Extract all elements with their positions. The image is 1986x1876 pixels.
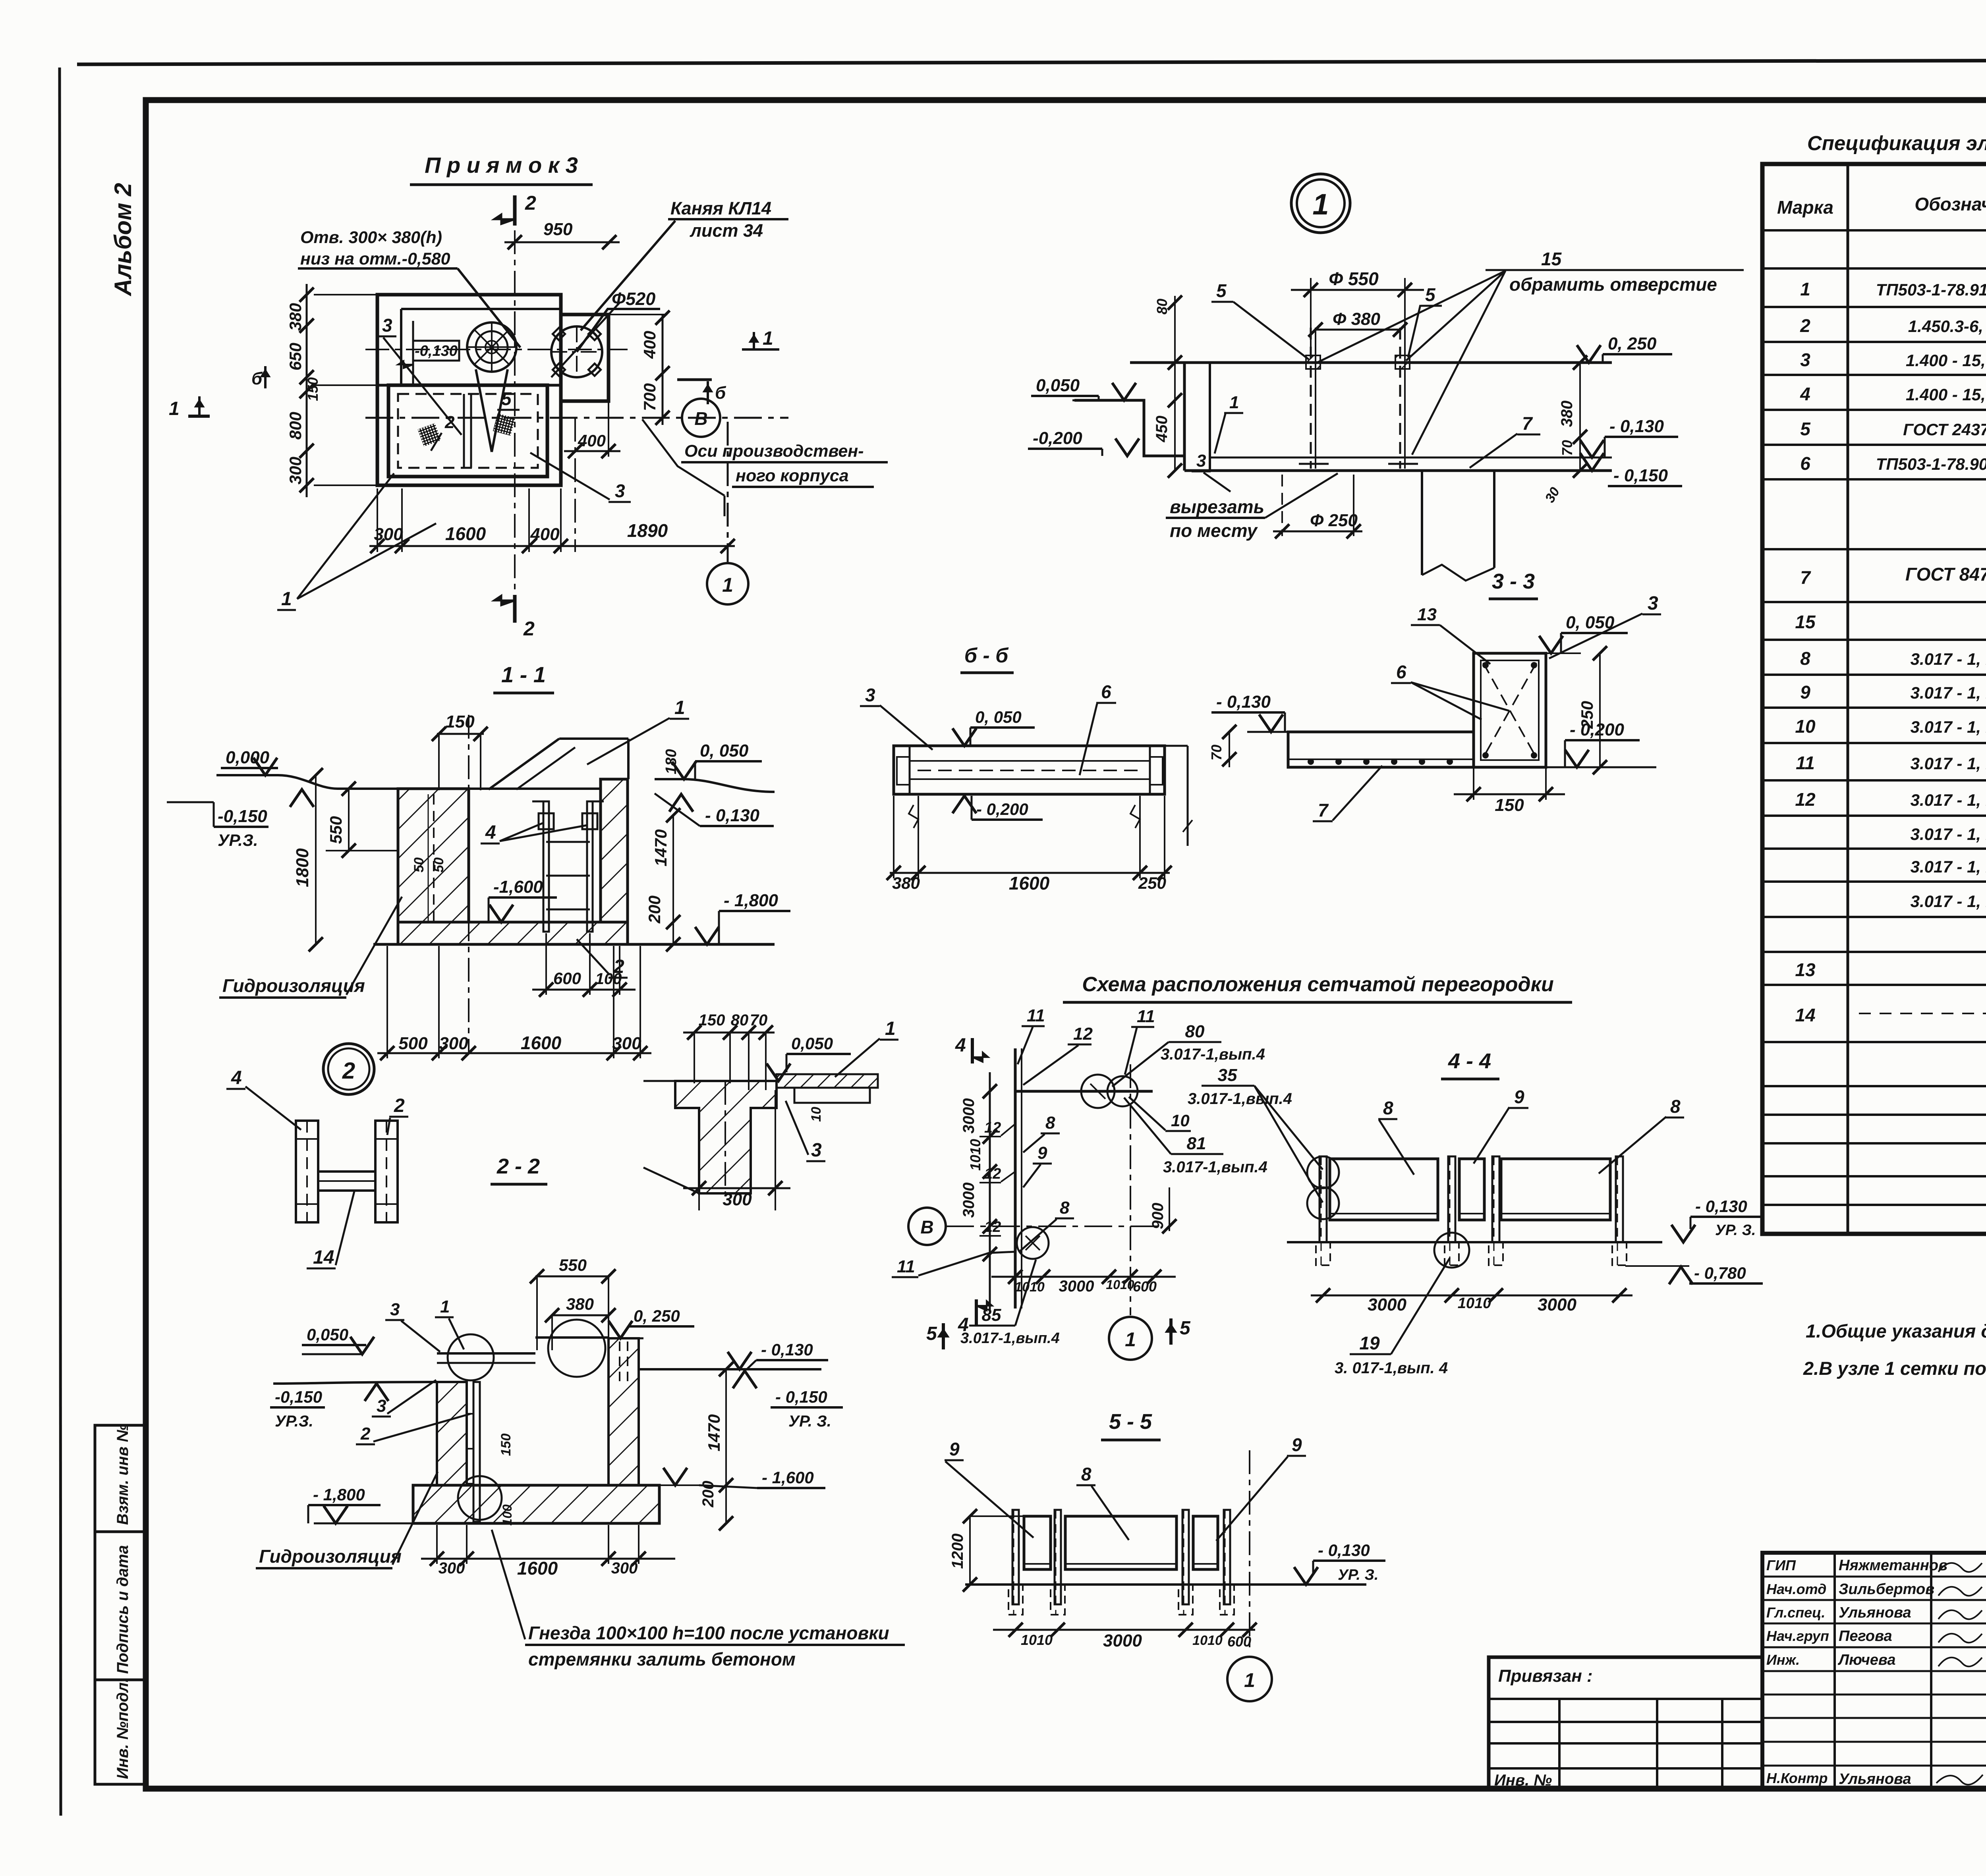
svg-text:Ульянова: Ульянова [1839,1604,1911,1621]
6-6 bottom dims [890,872,1170,874]
svg-text:3: 3 [377,1396,386,1416]
svg-text:6: 6 [1800,453,1810,474]
svg-text:0, 050: 0, 050 [1566,613,1615,632]
svg-text:50: 50 [411,857,427,872]
svg-text:85: 85 [982,1305,1001,1325]
svg-text:380: 380 [286,303,305,331]
plan right extension [561,315,609,401]
plan centerline horizontal [365,349,628,350]
bl ladder bottom circle [458,1476,502,1520]
svg-text:1.450.3-6, вып. 1: 1.450.3-6, вып. 1 [1908,317,1986,336]
svg-text:5: 5 [1800,419,1811,439]
left wall hatched [398,789,469,922]
svg-text:11: 11 [1796,753,1815,773]
svg-text:3.017-1,вып.4: 3.017-1,вып.4 [1188,1090,1292,1108]
svg-text:Нач.отд: Нач.отд [1766,1581,1826,1597]
svg-text:600: 600 [1227,1633,1251,1650]
svg-text:обрамить отверстие: обрамить отверстие [1509,274,1717,295]
svg-text:9: 9 [1514,1087,1524,1107]
bl ground line left [273,1382,437,1384]
svg-text:7: 7 [1522,413,1533,434]
svg-text:1600: 1600 [517,1558,558,1579]
svg-text:3000: 3000 [1368,1295,1406,1314]
svg-text:650: 650 [286,343,305,371]
svg-text:1200: 1200 [949,1534,966,1569]
svg-text:-1,600: -1,600 [493,877,543,897]
svg-text:8: 8 [1670,1096,1681,1117]
svg-text:0, 050: 0, 050 [975,708,1022,726]
svg-text:300: 300 [286,457,305,484]
svg-text:1.400 - 15, вып. 1: 1.400 - 15, вып. 1 [1906,351,1986,370]
bl left wall hatched [437,1382,467,1485]
svg-text:3.017 - 1, вып. 5: 3.017 - 1, вып. 5 [1911,683,1986,702]
bl joint circle right [548,1320,605,1377]
svg-text:3.017 - 1, вып. 2: 3.017 - 1, вып. 2 [1911,892,1986,911]
svg-text:150: 150 [305,377,321,401]
svg-text:0,000: 0,000 [226,748,270,767]
svg-text:Взям. инв №: Взям. инв № [114,1424,131,1525]
svg-text:600: 600 [1133,1278,1157,1295]
svg-text:УР.З.: УР.З. [218,831,258,849]
svg-text:Гнезда 100×100 h=100 после: Гнезда 100×100 h=100 после установки [528,1623,889,1643]
bl bolt in right wall [619,1341,620,1386]
схема wall vertical [1014,1048,1017,1309]
plan top inner lines [401,308,561,310]
svg-text:1: 1 [1229,393,1239,412]
axis circle 1 bottom [727,422,729,562]
svg-text:1: 1 [722,574,733,596]
svg-text:3.017-1,вып.4: 3.017-1,вып.4 [1161,1046,1265,1063]
схема left dim chain [989,1072,991,1310]
svg-text:150: 150 [699,1011,725,1029]
привязан box [1489,1657,1762,1789]
svg-text:19: 19 [1359,1333,1380,1353]
svg-text:3: 3 [865,685,875,705]
svg-text:80: 80 [731,1011,749,1029]
svg-text:950: 950 [543,220,573,239]
svg-text:1: 1 [440,1297,450,1316]
svg-text:250: 250 [1578,701,1596,729]
схема bottom dim chain [991,1276,1176,1278]
svg-text:3: 3 [811,1140,822,1161]
svg-text:-0,150: -0,150 [275,1388,322,1406]
svg-text:3.017 - 1, вып. 2: 3.017 - 1, вып. 2 [1911,857,1986,876]
svg-text:400: 400 [578,431,606,450]
svg-text:1010: 1010 [1192,1633,1223,1648]
svg-text:УР. З.: УР. З. [1715,1222,1756,1239]
right extension line [1165,745,1188,747]
svg-text:100: 100 [500,1504,514,1526]
svg-text:Альбом 2: Альбом 2 [110,183,136,297]
svg-text:13: 13 [1417,605,1437,624]
svg-text:стремянки залить бетоном: стремянки залить бетоном [528,1649,796,1669]
svg-text:вырезать: вырезать [1170,496,1264,517]
svg-text:1010: 1010 [967,1139,983,1171]
svg-text:В: В [694,408,707,429]
4-4 posts [1319,1156,1327,1242]
bottom dim chain [369,545,735,547]
svg-text:3.017-1,вып.4: 3.017-1,вып.4 [1163,1158,1267,1176]
svg-text:3.017 - 1, вып. 5: 3.017 - 1, вып. 5 [1911,718,1986,736]
svg-text:Марка: Марка [1777,197,1833,218]
svg-text:13: 13 [1795,959,1816,980]
svg-text:2: 2 [1800,315,1810,336]
svg-text:- 1,800: - 1,800 [724,891,779,910]
svg-text:5: 5 [1216,280,1227,301]
svg-text:550: 550 [326,816,345,844]
svg-text:1: 1 [763,328,773,349]
svg-text:9: 9 [1800,682,1810,703]
svg-text:2: 2 [523,618,535,640]
connector plate [318,1172,375,1191]
svg-text:4: 4 [955,1035,966,1056]
leader line to opening [458,268,520,347]
left stamp strip [95,1425,145,1784]
svg-text:3.017 - 1, вып. 2: 3.017 - 1, вып. 2 [1911,650,1986,668]
svg-text:380: 380 [1558,401,1576,427]
схема axis В horizontal [946,1226,1160,1227]
svg-text:1600: 1600 [1009,873,1050,894]
outer border left line [60,68,61,1816]
svg-text:300: 300 [374,525,403,544]
plan outer wall [377,295,561,485]
svg-text:7: 7 [1800,567,1811,588]
svg-text:- 0,130: - 0,130 [1609,417,1664,436]
svg-text:8: 8 [1045,1113,1055,1133]
left dim chain [306,284,308,497]
svg-text:15: 15 [1541,249,1562,269]
svg-text:ного корпуса: ного корпуса [736,466,849,485]
svg-text:5: 5 [1180,1318,1191,1339]
svg-text:1470: 1470 [705,1414,723,1451]
bl joint circle top [448,1334,494,1380]
svg-text:8: 8 [1383,1098,1393,1118]
svg-text:ГОСТ 8478 - 81*: ГОСТ 8478 - 81* [1905,564,1986,585]
svg-text:15: 15 [1795,612,1816,632]
svg-text:3: 3 [1196,451,1206,471]
svg-text:Подпись и дата: Подпись и дата [114,1545,131,1674]
svg-text:1: 1 [1244,1669,1255,1691]
rebar dashed in left wall [433,794,435,921]
svg-text:12: 12 [1073,1024,1093,1044]
pit inner rect [388,385,547,477]
svg-text:1: 1 [1312,188,1329,221]
svg-text:0, 050: 0, 050 [700,741,749,760]
узел 1 pit wall verticals [1183,363,1186,471]
level box -0.130 [413,341,459,361]
svg-text:2: 2 [394,1095,405,1116]
svg-text:7: 7 [1318,800,1329,820]
svg-text:Н.Контр: Н.Контр [1766,1770,1828,1786]
svg-text:Ф 250: Ф 250 [1310,511,1358,530]
svg-text:8: 8 [1060,1198,1070,1218]
svg-text:1890: 1890 [627,520,668,541]
bottom dim chain [377,1052,651,1054]
svg-text:5: 5 [1425,284,1436,305]
svg-text:1800: 1800 [293,848,312,887]
svg-text:400: 400 [530,525,560,544]
svg-text:1010: 1010 [1106,1278,1134,1292]
4-4 ground line [1287,1241,1662,1243]
svg-text:П р и я м о к 3: П р и я м о к 3 [425,152,578,178]
svg-text:- 0,150: - 0,150 [1613,466,1668,485]
pipe below [1421,471,1423,575]
svg-text:ТП503-1-78.91- КЖ. И. 35: ТП503-1-78.91- КЖ. И. 35 [1876,280,1986,299]
svg-text:- 1,600: - 1,600 [762,1468,814,1487]
ladder rails [543,801,549,932]
svg-text:Привязан :: Привязан : [1498,1666,1593,1686]
bolts feet [1299,463,1329,465]
svg-text:3. 017-1,вып. 4: 3. 017-1,вып. 4 [1335,1359,1448,1377]
svg-text:4: 4 [485,822,496,843]
svg-text:1470: 1470 [651,829,670,866]
svg-text:11: 11 [1027,1006,1045,1025]
svg-text:200: 200 [645,896,664,924]
svg-text:12: 12 [984,1166,1001,1182]
corner wall lower left break [643,1168,699,1193]
svg-text:Гл.спец.: Гл.спец. [1766,1604,1825,1621]
svg-text:300: 300 [439,1559,465,1577]
svg-text:3.017-1,вып.4: 3.017-1,вып.4 [960,1330,1060,1347]
svg-text:1600: 1600 [445,523,486,544]
svg-text:Отв. 300× 380(h): Отв. 300× 380(h) [300,228,442,247]
svg-text:0, 250: 0, 250 [1608,334,1657,353]
схема В circle [908,1208,946,1245]
svg-text:-0,200: -0,200 [1033,428,1082,448]
svg-text:Инв. №подл.: Инв. №подл. [114,1678,131,1779]
spec table grid [1762,164,1986,1234]
svg-text:4: 4 [231,1067,242,1089]
svg-text:1.Общие указания даны на лис: 1.Общие указания даны на листе 17. [1806,1320,1986,1341]
floor slab [398,922,628,944]
svg-text:3: 3 [1648,593,1658,614]
svg-text:2.В узле 1 сетки поз. 6 услов: 2.В узле 1 сетки поз. 6 условна не показ… [1803,1358,1986,1379]
corner detail dims 150 80 70 [683,1032,775,1034]
manhole КЛ14 circle [551,326,602,377]
svg-text:400: 400 [640,331,659,359]
svg-text:550: 550 [559,1256,587,1274]
corner wall hatched [675,1081,777,1193]
svg-text:1: 1 [674,697,685,718]
svg-text:300: 300 [612,1034,641,1053]
svg-text:4 - 4: 4 - 4 [1448,1049,1491,1073]
svg-text:12: 12 [984,1219,1001,1235]
svg-text:- 0,780: - 0,780 [1694,1264,1746,1282]
svg-text:380: 380 [892,874,920,892]
4-4 panels [1330,1159,1438,1220]
svg-text:Гидроизоляция: Гидроизоляция [259,1546,402,1567]
svg-text:11: 11 [1137,1007,1155,1026]
svg-text:- 0,200: - 0,200 [976,800,1028,818]
узел 1 top slab line [1130,361,1612,364]
centerline vertical section 2 [514,230,516,592]
svg-text:Ф520: Ф520 [612,289,655,309]
svg-text:150: 150 [498,1434,514,1456]
svg-text:- 0,150: - 0,150 [775,1388,827,1406]
узел 1 marker double circle [1291,174,1350,233]
svg-text:- 0,130: - 0,130 [761,1340,813,1359]
svg-text:0,050: 0,050 [1036,376,1080,395]
svg-text:3: 3 [1800,349,1810,370]
5-5 panels [1024,1516,1051,1569]
mesh symbol right [493,413,515,436]
bolt right [1399,328,1401,469]
ladder hooks top [539,813,554,829]
svg-text:ГОСТ 24379.1 - 80: ГОСТ 24379.1 - 80 [1903,420,1986,439]
svg-text:150: 150 [445,712,475,731]
svg-text:Ф 380: Ф 380 [1333,309,1381,329]
svg-text:2: 2 [613,956,624,977]
svg-text:12: 12 [984,1119,1001,1136]
svg-text:- 0,130: - 0,130 [1216,692,1271,712]
svg-text:3: 3 [382,315,392,336]
узел 1 left step profile [1074,400,1184,456]
svg-text:УР. З.: УР. З. [788,1413,831,1430]
title block signature table [1762,1553,1986,1789]
bl right wall hatched [609,1338,639,1485]
bl ladder rail [473,1382,480,1522]
bl top plate [437,1352,535,1355]
svg-text:Инж.: Инж. [1766,1652,1800,1668]
floor bottom line extended [373,943,775,946]
svg-text:2: 2 [360,1424,371,1444]
svg-text:ТП503-1-78.90 - КЖ. И.48: ТП503-1-78.90 - КЖ. И.48 [1876,455,1986,473]
diagonal leader through manhole [551,303,620,377]
svg-text:70: 70 [1208,745,1225,760]
svg-text:9: 9 [1292,1434,1302,1455]
svg-text:3.017 - 1, вып. 1: 3.017 - 1, вып. 1 [1911,791,1986,809]
svg-text:3.017 - 1, вып. 1: 3.017 - 1, вып. 1 [1911,754,1986,773]
svg-text:б - б: б - б [964,644,1009,667]
svg-text:200: 200 [699,1481,717,1508]
схема joint circle bottom [1017,1227,1049,1259]
svg-text:0,050: 0,050 [791,1034,833,1053]
right dim chain 400 700 [662,314,664,425]
svg-text:10: 10 [1795,716,1816,737]
svg-text:3000: 3000 [1103,1631,1142,1650]
svg-text:380: 380 [566,1295,594,1313]
svg-text:0, 250: 0, 250 [634,1307,680,1325]
svg-text:80: 80 [1154,299,1170,315]
svg-text:500: 500 [398,1034,428,1053]
svg-text:Няжметаннов: Няжметаннов [1839,1557,1947,1574]
svg-text:10: 10 [1171,1111,1190,1130]
svg-text:В: В [920,1217,933,1237]
bolt left [1310,328,1312,469]
bar left [296,1121,318,1222]
5-5 dim chain [993,1629,1255,1631]
svg-text:250: 250 [1138,874,1166,892]
svg-text:300: 300 [723,1190,752,1209]
3-3 floor strip [1288,732,1474,767]
svg-text:0,050: 0,050 [307,1325,348,1344]
right wall hatched [601,779,628,922]
svg-text:9: 9 [949,1439,960,1459]
svg-text:5: 5 [501,388,512,409]
svg-text:б: б [251,369,263,388]
ground line left [216,774,278,776]
svg-text:9: 9 [1037,1143,1047,1163]
svg-text:Обозначение: Обозначение [1915,194,1986,214]
bl upper wall lines [535,1336,609,1339]
svg-text:1: 1 [1125,1328,1136,1351]
svg-text:Гидроизоляция: Гидроизоляция [222,975,365,996]
corner plate hatched [777,1074,878,1088]
svg-text:низ на отм.-0,580: низ на отм.-0,580 [300,249,450,268]
svg-text:300: 300 [611,1559,638,1577]
svg-text:2: 2 [342,1058,355,1084]
svg-text:12: 12 [1795,789,1816,810]
svg-text:450: 450 [1153,416,1171,443]
svg-text:3000: 3000 [1538,1295,1576,1314]
axis circle В [682,399,720,437]
svg-text:8: 8 [1800,648,1810,669]
svg-text:Зильбертов: Зильбертов [1839,1581,1934,1598]
svg-text:80: 80 [1185,1022,1205,1041]
svg-text:ГИП: ГИП [1766,1557,1796,1573]
detail circle 2 [323,1044,374,1094]
svg-text:8: 8 [1081,1464,1092,1484]
svg-text:Нач.груп: Нач.груп [1766,1628,1829,1644]
svg-text:10: 10 [809,1107,824,1122]
svg-text:1600: 1600 [521,1033,562,1053]
svg-text:81: 81 [1187,1134,1206,1153]
svg-text:2 - 2: 2 - 2 [496,1154,540,1178]
6-6 slab [894,746,1165,794]
схема partition horizontal top [1015,1090,1153,1093]
funnel V outline [476,369,492,452]
svg-text:Ульянова: Ульянова [1839,1771,1911,1787]
svg-text:3 - 3: 3 - 3 [1492,569,1535,593]
svg-text:1010: 1010 [1021,1632,1053,1648]
svg-text:б: б [715,383,726,403]
svg-text:УР. З.: УР. З. [1338,1567,1378,1583]
svg-text:Лючева: Лючева [1837,1652,1895,1668]
ground line right [655,779,775,792]
svg-text:Схема расположения сетчатой: Схема расположения сетчатой перегородки [1082,973,1553,996]
схема circle 1 [1109,1317,1152,1360]
svg-text:лист 34: лист 34 [690,220,763,241]
svg-text:5 - 5: 5 - 5 [1109,1410,1152,1434]
svg-text:-0,150: -0,150 [218,807,267,826]
svg-text:по месту: по месту [1170,520,1258,541]
5-5 axis dash-dot [1249,1450,1250,1653]
svg-text:3.017 - 1, вып. 2: 3.017 - 1, вып. 2 [1911,825,1986,843]
svg-text:1: 1 [885,1018,896,1039]
4-4 joint circles [1307,1156,1339,1188]
svg-text:3: 3 [615,481,625,501]
svg-text:300: 300 [439,1034,468,1053]
узел 1 bottom floor lines [1184,469,1612,472]
plan axis line В horizontal [365,417,788,419]
axis dash-dot vertical [468,715,469,1052]
svg-text:4: 4 [1800,384,1810,404]
svg-text:14: 14 [1795,1005,1815,1025]
svg-text:70: 70 [750,1011,768,1029]
svg-text:5: 5 [926,1323,937,1344]
break marks [909,805,918,828]
svg-text:Ф 550: Ф 550 [1329,268,1379,289]
outer border top line [77,60,1986,64]
svg-text:3000: 3000 [960,1183,978,1218]
svg-text:150: 150 [1495,795,1524,815]
svg-text:3000: 3000 [1059,1278,1094,1295]
svg-text:1: 1 [281,589,292,610]
svg-text:- 0,130: - 0,130 [705,806,760,825]
svg-text:1010: 1010 [1458,1295,1491,1312]
svg-text:900: 900 [1149,1203,1167,1229]
svg-text:1.400 - 15, вып. 1: 1.400 - 15, вып. 1 [1906,385,1986,404]
